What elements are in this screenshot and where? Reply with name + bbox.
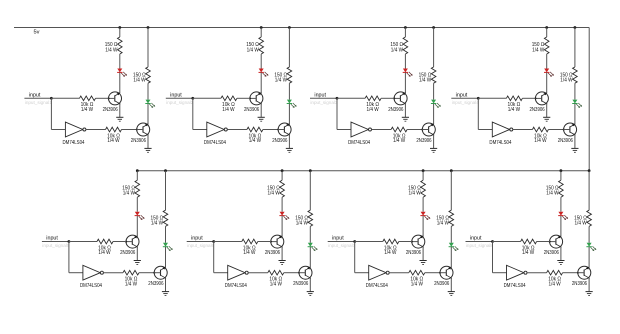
value label 10k 1/4W (block 3 Q2 base): [393, 133, 406, 144]
label 2N3906 (block 7 red branch): [406, 250, 421, 256]
wire: 10k resistor to Q1 base (block 1): [96, 97, 109, 99]
wire: green LED to Q2 emitter (block 4): [574, 104, 576, 125]
svg-text:DM74LS04: DM74LS04: [204, 140, 226, 146]
resistor 10k 1/4W at Q2 base (block 5): [123, 270, 139, 275]
LED red (block 7): [420, 212, 430, 220]
resistor 10k 1/4W at Q2 base (block 3): [391, 127, 407, 132]
wire: 10k resistor to Q2 base (block 2): [263, 129, 278, 131]
wire + ground below Q2 (block 2): [286, 135, 293, 153]
transistor Q 2N3906 PNP (green branch, block 5): [154, 266, 167, 279]
wire: junction to 10k resistor (block 6): [214, 241, 242, 243]
resistor 10k 1/4W at Q2 base (block 2): [247, 127, 263, 132]
junction node: wire2 to 5V rail (block 8): [588, 169, 591, 172]
wire: rail down to 150-ohm resistor green branch (block 1): [147, 28, 149, 68]
junction node on input wire (block 7): [353, 240, 356, 243]
svg-text:1/4 W: 1/4 W: [151, 221, 163, 227]
junction dot at Q2 base (block 8): [577, 272, 579, 274]
svg-text:input: input: [29, 92, 41, 98]
label DM74LS04 (block 7): [366, 283, 388, 289]
resistor 150 ohm 1/4W (green-LED branch, block 6): [308, 210, 313, 226]
value label 150 ohm 1/4W (block 8): [546, 185, 559, 196]
svg-text:2N3906: 2N3906: [406, 250, 421, 256]
value label 150 ohm 1/4W (block 5): [122, 185, 135, 196]
LED green (block 3): [431, 100, 441, 108]
LED red (block 4): [544, 69, 554, 77]
junction dot at Q1 base (block 3): [393, 97, 395, 99]
wire + ground below Q1 (block 6): [279, 247, 286, 265]
transistor Q 2N3906 PNP (green branch, block 2): [278, 123, 291, 136]
junction node on input wire (block 8): [491, 240, 494, 243]
svg-text:DM74LS04: DM74LS04: [489, 140, 511, 146]
svg-text:input_signal7: input_signal7: [328, 243, 356, 248]
faint net name under input wire (block 2): [166, 100, 194, 105]
inverter DM74LS04 (block 4): [492, 122, 513, 137]
wire: resistor to red LED (block 3): [404, 54, 406, 69]
junction node: wire2 to 5V rail (block 7): [450, 169, 453, 172]
wire: junction to 10k resistor (block 1): [51, 97, 79, 99]
inverter DM74LS04 (block 5): [83, 265, 104, 280]
junction node: wire2 to 5V rail (block 4): [574, 26, 577, 29]
wire: 10k resistor to Q1 base (block 3): [381, 97, 394, 99]
svg-text:1/4 W: 1/4 W: [243, 250, 255, 256]
wire: rail down to 150-ohm resistor green branch (block 4): [574, 28, 576, 68]
wire: inverter output to 10k resistor (block 2): [227, 129, 247, 131]
wire: right-edge vertical joining 5V rail to lower rail: [588, 28, 590, 171]
label 2N3906 (block 8 red branch): [544, 250, 559, 256]
wire + ground below Q2 (block 1): [144, 135, 151, 153]
wire + ground below Q2 (block 7): [448, 278, 455, 296]
svg-text:1/4 W: 1/4 W: [268, 191, 280, 197]
value label 150 ohm 1/4W green branch (block 5): [151, 216, 164, 227]
transistor Q 2N3906 PNP (red branch, block 4): [535, 92, 548, 105]
label 2N3906 (block 5 red branch): [120, 250, 135, 256]
svg-text:input_signal4: input_signal4: [452, 100, 480, 105]
svg-text:2N3906: 2N3906: [530, 107, 545, 113]
wire: green LED to Q2 emitter (block 5): [165, 247, 167, 268]
inverter DM74LS04 (block 2): [207, 122, 228, 137]
svg-text:DM74LS04: DM74LS04: [504, 283, 526, 289]
svg-text:1/4 W: 1/4 W: [81, 107, 93, 113]
input wire (block 7): [328, 241, 355, 243]
value label 150 ohm 1/4W (block 3): [390, 42, 403, 53]
junction node: wire1 to 5V rail (block 5): [136, 169, 139, 172]
resistor 10k 1/4W at Q2 base (block 7): [409, 270, 425, 275]
value label 150 ohm 1/4W green branch (block 4): [560, 73, 573, 84]
resistor 10k 1/4W at Q1 base (block 3): [365, 96, 381, 101]
5V rail (lower row): [137, 170, 589, 172]
LED red (block 3): [403, 69, 413, 77]
wire: 10k resistor to Q2 base (block 8): [563, 272, 578, 274]
junction dot at Q2 base (block 2): [277, 129, 279, 131]
transistor Q 2N3906 PNP (green branch, block 6): [299, 266, 312, 279]
wire: resistor to green LED (block 6): [309, 226, 311, 242]
input terminal label (block 5): [46, 236, 58, 242]
svg-text:1/4 W: 1/4 W: [384, 250, 396, 256]
svg-text:input: input: [191, 236, 203, 242]
transistor Q 2N3906 PNP (green branch, block 3): [422, 123, 435, 136]
junction dot at Q1 base (block 5): [125, 241, 127, 243]
resistor 10k 1/4W at Q2 base (block 6): [268, 270, 284, 275]
label 2N3906 (block 2 green branch): [272, 138, 287, 144]
junction dot at Q2 base (block 5): [153, 272, 155, 274]
wire: red LED to Q1 emitter (block 8): [560, 216, 562, 237]
transistor Q 2N3906 PNP (red branch, block 6): [271, 235, 284, 248]
value label 10k 1/4W (block 8 Q1 base): [522, 245, 535, 256]
inverter DM74LS04 (block 6): [228, 265, 249, 280]
svg-text:5v: 5v: [34, 29, 40, 35]
wire: resistor to green LED (block 7): [450, 226, 452, 242]
svg-text:1/4 W: 1/4 W: [391, 47, 403, 53]
svg-text:1/4 W: 1/4 W: [409, 191, 421, 197]
svg-text:2N3906: 2N3906: [131, 138, 146, 144]
input wire (block 3): [310, 97, 337, 99]
wire + ground below Q2 (block 5): [162, 278, 169, 296]
wire: rail down to 150-ohm resistor (block 5): [136, 171, 138, 181]
value label 10k 1/4W (block 6 Q1 base): [243, 245, 256, 256]
transistor Q 2N3906 PNP (green branch, block 8): [578, 266, 591, 279]
faint net name under input wire (block 5): [42, 243, 70, 248]
resistor 10k 1/4W at Q1 base (block 5): [97, 239, 113, 244]
svg-text:2N3906: 2N3906: [434, 281, 449, 287]
transistor Q 2N3906 PNP (red branch, block 7): [412, 235, 425, 248]
label 2N3906 (block 3 red branch): [388, 107, 403, 113]
resistor 10k 1/4W at Q1 base (block 7): [383, 239, 399, 244]
svg-text:input_signal8: input_signal8: [466, 243, 494, 248]
label 2N3906 (block 7 green branch): [434, 281, 449, 287]
resistor 150 ohm 1/4W (red-LED branch, block 7): [421, 180, 426, 197]
LED red (block 1): [117, 69, 127, 77]
wire: red LED to Q1 emitter (block 3): [404, 72, 406, 93]
svg-text:1/4 W: 1/4 W: [419, 77, 431, 83]
junction dot at Q1 base (block 4): [535, 97, 537, 99]
value label 10k 1/4W (block 7 Q1 base): [384, 245, 397, 256]
transistor Q 2N3906 PNP (red branch, block 8): [550, 235, 563, 248]
wire: junction to 10k resistor (block 5): [69, 241, 97, 243]
wire: rail down to 150-ohm resistor (block 4): [546, 28, 548, 38]
input terminal label (block 3): [314, 92, 326, 98]
junction node: wire2 to 5V rail (block 2): [288, 26, 291, 29]
svg-text:2N3906: 2N3906: [265, 250, 280, 256]
LED green (block 5): [163, 243, 173, 251]
5V power rail (top): [14, 27, 589, 29]
svg-text:input: input: [332, 236, 344, 242]
resistor 150 ohm 1/4W (green-LED branch, block 8): [587, 210, 592, 226]
junction dot at Q1 base (block 7): [411, 241, 413, 243]
wire: rail down to 150-ohm resistor green branch (block 2): [288, 28, 290, 68]
resistor 150 ohm 1/4W (red-LED branch, block 2): [259, 37, 264, 54]
LED green (block 1): [145, 100, 155, 108]
svg-text:1/4 W: 1/4 W: [107, 138, 119, 144]
value label 10k 1/4W (block 7 Q2 base): [410, 277, 423, 288]
resistor 10k 1/4W at Q2 base (block 1): [106, 127, 122, 132]
wire: inverter output to 10k resistor (block 3): [372, 129, 392, 131]
svg-text:1/4 W: 1/4 W: [549, 281, 561, 287]
value label 150 ohm 1/4W (block 6): [267, 185, 280, 196]
svg-text:input: input: [470, 236, 482, 242]
inverter DM74LS04 (block 8): [507, 265, 528, 280]
wire: red LED to Q1 emitter (block 4): [546, 72, 548, 93]
input terminal label (block 2): [170, 92, 182, 98]
wire: 10k resistor to Q1 base (block 8): [537, 241, 550, 243]
junction node on input wire (block 6): [212, 240, 215, 243]
value label 10k 1/4W (block 2 Q2 base): [249, 133, 262, 144]
wire: 10k resistor to Q2 base (block 4): [548, 129, 563, 131]
wire: rail down to 150-ohm resistor green branch (block 7): [450, 171, 452, 211]
wire + ground below Q1 (block 7): [420, 247, 427, 265]
wire: resistor to red LED (block 5): [136, 197, 138, 212]
value label 150 ohm 1/4W green branch (block 1): [133, 73, 146, 84]
wire: inverter output to 10k resistor (block 4): [513, 129, 533, 131]
junction dot at Q2 base (block 4): [563, 129, 565, 131]
svg-text:1/4 W: 1/4 W: [522, 250, 534, 256]
wire: 10k resistor to Q1 base (block 6): [258, 241, 271, 243]
junction dot at Q1 base (block 8): [549, 241, 551, 243]
LED green (block 6): [308, 243, 318, 251]
wire: junction down and across to inverter input (block 7): [355, 242, 369, 273]
label 2N3906 (block 6 red branch): [265, 250, 280, 256]
label DM74LS04 (block 1): [63, 140, 85, 146]
svg-text:1/4 W: 1/4 W: [123, 191, 135, 197]
svg-text:DM74LS04: DM74LS04: [63, 140, 85, 146]
resistor 150 ohm 1/4W (green-LED branch, block 3): [431, 67, 436, 83]
label 2N3906 (block 4 green branch): [558, 138, 573, 144]
label DM74LS04 (block 2): [204, 140, 226, 146]
wire: junction to 10k resistor (block 3): [337, 97, 365, 99]
wire: green LED to Q2 emitter (block 1): [147, 104, 149, 125]
value label 150 ohm 1/4W green branch (block 3): [419, 73, 432, 84]
label DM74LS04 (block 5): [80, 283, 102, 289]
svg-text:2N3906: 2N3906: [272, 138, 287, 144]
wire: 10k resistor to Q2 base (block 5): [139, 272, 154, 274]
wire + ground below Q1 (block 2): [258, 104, 265, 122]
wire: resistor to green LED (block 5): [165, 226, 167, 242]
wire: junction down and across to inverter input (block 3): [337, 98, 351, 129]
label 2N3906 (block 6 green branch): [293, 281, 308, 287]
wire + ground below Q2 (block 8): [586, 278, 593, 296]
input wire (block 4): [451, 97, 478, 99]
svg-text:DM74LS04: DM74LS04: [348, 140, 370, 146]
wire: junction to 10k resistor (block 2): [193, 97, 221, 99]
resistor 150 ohm 1/4W (green-LED branch, block 5): [163, 210, 168, 226]
wire: inverter output to 10k resistor (block 5): [103, 272, 123, 274]
resistor 10k 1/4W at Q1 base (block 4): [506, 96, 522, 101]
svg-text:1/4 W: 1/4 W: [249, 138, 261, 144]
junction dot at Q1 base (block 6): [270, 241, 272, 243]
wire: red LED to Q1 emitter (block 7): [422, 216, 424, 237]
svg-text:2N3906: 2N3906: [544, 250, 559, 256]
label 2N3906 (block 3 green branch): [416, 138, 431, 144]
junction node: wire2 to 5V rail (block 6): [309, 169, 312, 172]
svg-text:input_signal5: input_signal5: [42, 243, 70, 248]
svg-text:1/4 W: 1/4 W: [393, 138, 405, 144]
wire: green LED to Q2 emitter (block 6): [309, 247, 311, 268]
svg-text:input_signal2: input_signal2: [166, 100, 194, 105]
faint net name under input wire (block 3): [310, 100, 338, 105]
faint net name under input wire (block 8): [466, 243, 494, 248]
wire: green LED to Q2 emitter (block 7): [450, 247, 452, 268]
inverter DM74LS04 (block 1): [65, 122, 86, 137]
label 2N3906 (block 1 green branch): [131, 138, 146, 144]
svg-text:DM74LS04: DM74LS04: [225, 283, 247, 289]
junction node on input wire (block 2): [191, 97, 194, 100]
value label 150 ohm 1/4W (block 7): [408, 185, 421, 196]
value label 10k 1/4W (block 4 Q1 base): [508, 102, 521, 113]
transistor Q 2N3906 PNP (red branch, block 2): [250, 92, 263, 105]
wire + ground below Q1 (block 8): [557, 247, 564, 265]
value label 150 ohm 1/4W green branch (block 7): [436, 216, 449, 227]
svg-text:2N3906: 2N3906: [572, 281, 587, 287]
wire: resistor to red LED (block 2): [260, 54, 262, 69]
wire + ground below Q1 (block 4): [543, 104, 550, 122]
value label 10k 1/4W (block 4 Q2 base): [534, 133, 547, 144]
svg-text:1/4 W: 1/4 W: [411, 281, 423, 287]
label 2N3906 (block 2 red branch): [244, 107, 259, 113]
wire: resistor to red LED (block 1): [119, 54, 121, 69]
svg-text:input_signal3: input_signal3: [310, 100, 338, 105]
input wire (block 6): [187, 241, 214, 243]
faint net name under input wire (block 4): [452, 100, 480, 105]
resistor 10k 1/4W at Q1 base (block 1): [80, 96, 96, 101]
wire: 10k resistor to Q2 base (block 1): [122, 129, 137, 131]
value label 150 ohm 1/4W green branch (block 2): [274, 73, 287, 84]
value label 150 ohm 1/4W (block 2): [246, 42, 259, 53]
svg-text:1/4 W: 1/4 W: [275, 77, 287, 83]
label 2N3906 (block 5 green branch): [148, 281, 163, 287]
wire: red LED to Q1 emitter (block 6): [281, 216, 283, 237]
wire: junction to 10k resistor (block 8): [493, 241, 521, 243]
transistor Q 2N3906 PNP (red branch, block 3): [394, 92, 407, 105]
input terminal label (block 4): [456, 92, 468, 98]
svg-text:1/4 W: 1/4 W: [296, 221, 308, 227]
wire: resistor to green LED (block 2): [288, 83, 290, 99]
svg-text:1/4 W: 1/4 W: [575, 221, 587, 227]
svg-text:input: input: [314, 92, 326, 98]
wire: rail down to 150-ohm resistor green branch (block 3): [433, 28, 435, 68]
junction node: wire1 to 5V rail (block 2): [260, 26, 263, 29]
svg-text:input: input: [456, 92, 468, 98]
wire: rail down to 150-ohm resistor green branch (block 5): [165, 171, 167, 211]
LED green (block 4): [572, 100, 582, 108]
resistor 150 ohm 1/4W (green-LED branch, block 2): [287, 67, 292, 83]
wire + ground below Q1 (block 3): [402, 104, 409, 122]
label DM74LS04 (block 8): [504, 283, 526, 289]
wire: resistor to green LED (block 1): [147, 83, 149, 99]
label 5v on power rail: [34, 29, 40, 35]
junction node on input wire (block 4): [477, 97, 480, 100]
svg-text:1/4 W: 1/4 W: [98, 250, 110, 256]
svg-text:1/4 W: 1/4 W: [534, 138, 546, 144]
junction node on input wire (block 5): [68, 240, 71, 243]
wire: 10k resistor to Q2 base (block 3): [407, 129, 422, 131]
svg-text:2N3906: 2N3906: [148, 281, 163, 287]
svg-text:1/4 W: 1/4 W: [105, 47, 117, 53]
wire + ground below Q2 (block 4): [571, 135, 578, 153]
svg-text:1/4 W: 1/4 W: [437, 221, 449, 227]
wire: junction down and across to inverter input (block 6): [214, 242, 228, 273]
junction dot at Q1 base (block 1): [108, 97, 110, 99]
svg-text:1/4 W: 1/4 W: [133, 77, 145, 83]
wire + ground below Q2 (block 3): [430, 135, 437, 153]
junction dot at Q2 base (block 1): [136, 129, 138, 131]
wire: inverter output to 10k resistor (block 6): [248, 272, 268, 274]
resistor 10k 1/4W at Q2 base (block 4): [532, 127, 548, 132]
value label 10k 1/4W (block 5 Q2 base): [125, 277, 138, 288]
value label 150 ohm 1/4W (block 4): [532, 42, 545, 53]
resistor 10k 1/4W at Q1 base (block 8): [521, 239, 537, 244]
svg-text:2N3906: 2N3906: [293, 281, 308, 287]
resistor 150 ohm 1/4W (green-LED branch, block 4): [573, 67, 578, 83]
input wire (block 1): [24, 97, 51, 99]
input terminal label (block 7): [332, 236, 344, 242]
wire: resistor to red LED (block 4): [546, 54, 548, 69]
junction node: wire2 to 5V rail (block 3): [432, 26, 435, 29]
junction node on input wire (block 3): [336, 97, 339, 100]
input terminal label (block 8): [470, 236, 482, 242]
resistor 10k 1/4W at Q1 base (block 2): [221, 96, 237, 101]
svg-text:2N3906: 2N3906: [103, 107, 118, 113]
input wire (block 2): [166, 97, 193, 99]
svg-text:DM74LS04: DM74LS04: [80, 283, 102, 289]
LED red (block 2): [259, 69, 269, 77]
value label 150 ohm 1/4W (block 1): [105, 42, 118, 53]
wire: rail down to 150-ohm resistor green branch (block 6): [309, 171, 311, 211]
value label 10k 1/4W (block 5 Q1 base): [98, 245, 111, 256]
svg-text:2N3906: 2N3906: [244, 107, 259, 113]
label 2N3906 (block 8 green branch): [572, 281, 587, 287]
wire: junction down and across to inverter input (block 5): [69, 242, 83, 273]
wire: rail down to 150-ohm resistor (block 6): [281, 171, 283, 181]
resistor 150 ohm 1/4W (red-LED branch, block 4): [544, 37, 549, 54]
value label 10k 1/4W (block 2 Q1 base): [222, 102, 235, 113]
input wire (block 8): [466, 241, 493, 243]
resistor 150 ohm 1/4W (green-LED branch, block 1): [146, 67, 151, 83]
LED green (block 8): [586, 243, 596, 251]
wire: green LED to Q2 emitter (block 8): [588, 247, 590, 268]
wire: 10k resistor to Q2 base (block 6): [284, 272, 299, 274]
wire: 10k resistor to Q1 base (block 7): [399, 241, 412, 243]
resistor 150 ohm 1/4W (red-LED branch, block 5): [135, 180, 140, 197]
label DM74LS04 (block 4): [489, 140, 511, 146]
inverter DM74LS04 (block 7): [369, 265, 390, 280]
wire: junction down and across to inverter input (block 2): [193, 98, 207, 129]
LED red (block 8): [558, 212, 568, 220]
wire: rail down to 150-ohm resistor (block 1): [119, 28, 121, 38]
value label 10k 1/4W (block 6 Q2 base): [269, 277, 282, 288]
svg-text:1/4 W: 1/4 W: [222, 107, 234, 113]
svg-text:input: input: [46, 236, 58, 242]
wire: rail down to 150-ohm resistor (block 7): [422, 171, 424, 181]
wire: 10k resistor to Q1 base (block 2): [237, 97, 250, 99]
wire + ground below Q1 (block 1): [116, 104, 123, 122]
wire: 10k resistor to Q1 base (block 5): [113, 241, 126, 243]
wire: red LED to Q1 emitter (block 1): [119, 72, 121, 93]
svg-text:input: input: [170, 92, 182, 98]
wire: resistor to green LED (block 4): [574, 83, 576, 99]
junction node: wire1 to 5V rail (block 7): [422, 169, 425, 172]
input wire (block 5): [42, 241, 69, 243]
junction dot at Q2 base (block 7): [439, 272, 441, 274]
svg-text:2N3906: 2N3906: [416, 138, 431, 144]
wire: rail down to 150-ohm resistor green branch (block 8): [588, 171, 590, 211]
LED red (block 6): [279, 212, 289, 220]
junction node on input wire (block 1): [50, 97, 53, 100]
transistor Q 2N3906 PNP (green branch, block 7): [440, 266, 453, 279]
transistor Q 2N3906 PNP (red branch, block 1): [109, 92, 122, 105]
wire: junction down and across to inverter input (block 1): [51, 98, 65, 129]
junction node: wire1 to 5V rail (block 1): [118, 26, 121, 29]
value label 10k 1/4W (block 1 Q1 base): [81, 102, 94, 113]
junction node: wire2 to 5V rail (block 1): [147, 26, 150, 29]
